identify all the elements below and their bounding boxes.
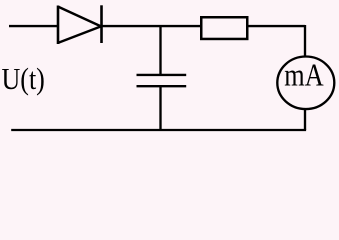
svg-text:U(t): U(t) xyxy=(2,62,45,97)
svg-text:mA: mA xyxy=(284,58,323,93)
